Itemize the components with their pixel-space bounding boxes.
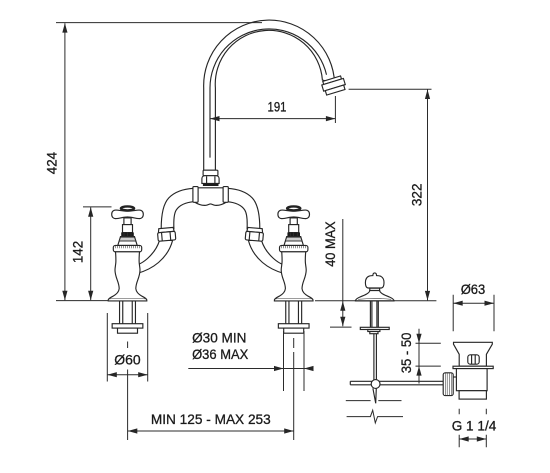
svg-text:MIN 125 - MAX 253: MIN 125 - MAX 253: [151, 411, 271, 427]
svg-text:Ø30 MIN: Ø30 MIN: [192, 330, 246, 346]
svg-text:191: 191: [268, 99, 287, 115]
svg-text:Ø63: Ø63: [461, 281, 486, 297]
svg-text:G 1 1/4: G 1 1/4: [452, 417, 497, 433]
svg-text:Ø36 MAX: Ø36 MAX: [192, 346, 249, 362]
svg-text:322: 322: [409, 183, 425, 206]
svg-text:40 MAX: 40 MAX: [322, 221, 338, 267]
svg-text:Ø60: Ø60: [114, 352, 141, 368]
svg-text:424: 424: [44, 152, 60, 175]
svg-text:142: 142: [69, 241, 85, 263]
svg-text:35 - 50: 35 - 50: [398, 332, 414, 373]
